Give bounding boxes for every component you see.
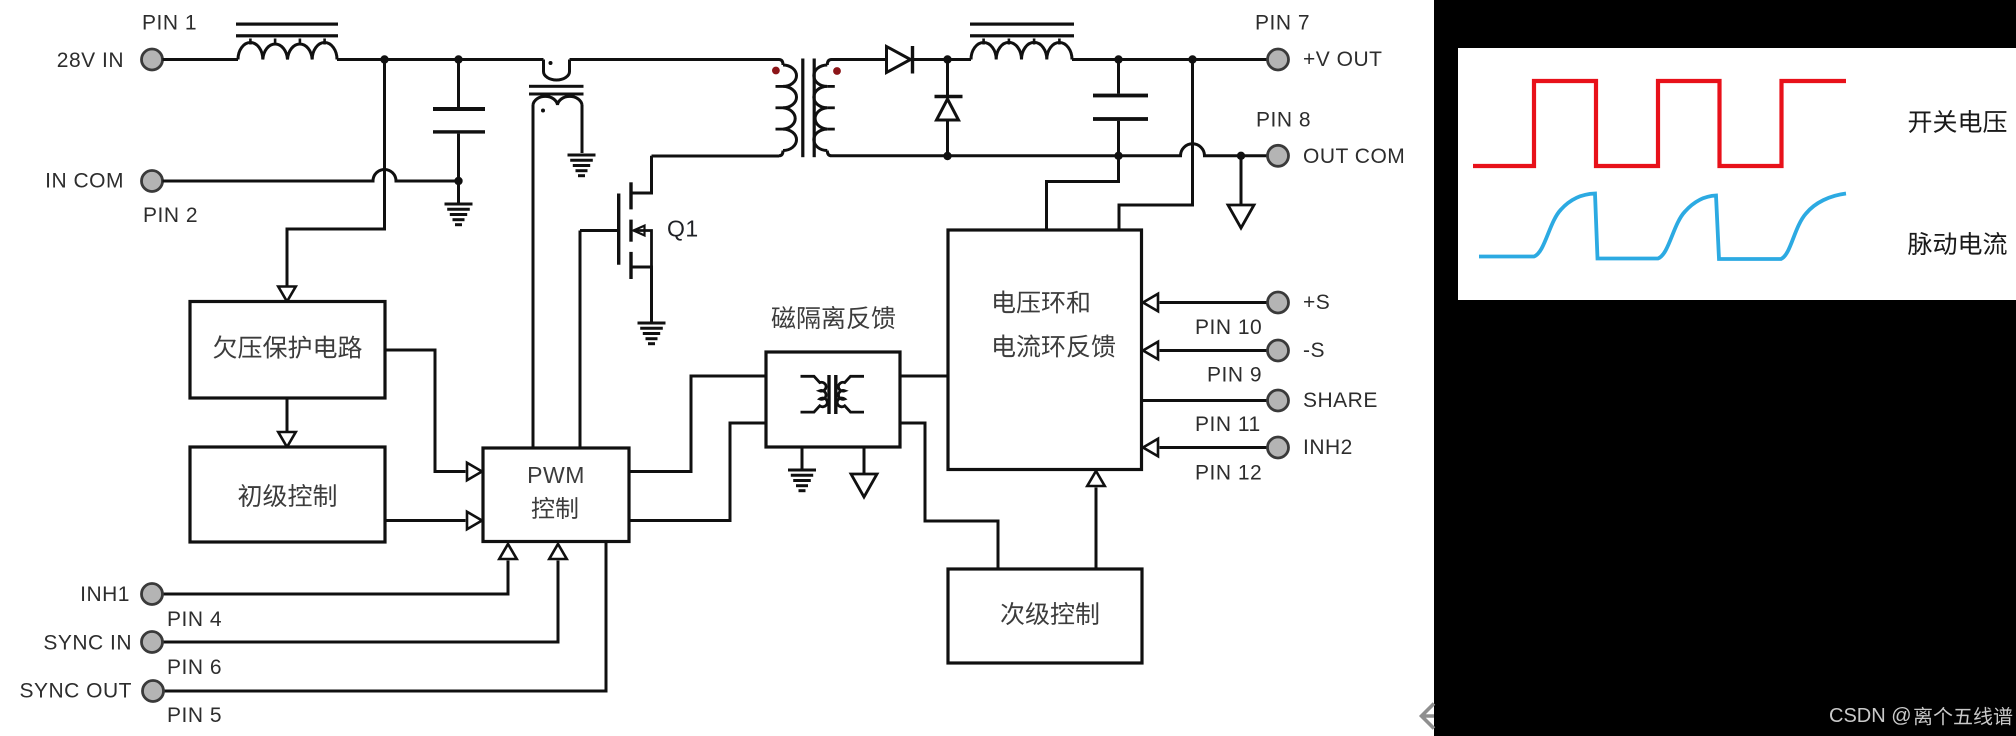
svg-text:PIN 9: PIN 9 — [1207, 364, 1262, 387]
svg-text:+V OUT: +V OUT — [1303, 48, 1382, 71]
text secondary control — [1001, 602, 1098, 625]
junction input rail / C1 — [454, 55, 462, 63]
block undervoltage protection — [190, 302, 385, 399]
terminal PIN8 OUT COM — [1268, 145, 1289, 166]
waveform panel white card — [1458, 48, 2016, 300]
wire L1 to CT primary — [337, 58, 544, 61]
block secondary control — [948, 569, 1142, 663]
transformer T1 primary winding — [776, 65, 797, 151]
terminal PIN6 SYNC IN — [142, 632, 163, 653]
svg-text:PIN 11: PIN 11 — [1195, 413, 1261, 436]
wire CT to T1 primary — [570, 58, 780, 61]
wire C1 ground stub — [457, 181, 460, 204]
wire 28V IN to L1 — [163, 58, 239, 61]
wire C2 top lead — [1117, 60, 1120, 94]
wire L2 to +V OUT — [1072, 58, 1268, 61]
T1 secondary bottom corner — [827, 151, 831, 156]
Q1 body arrow — [634, 226, 645, 236]
polarity dot CT primary — [549, 61, 553, 65]
wire Q1 drain to T1 primary bottom — [652, 155, 780, 158]
junction D1 cathode / L2 / D2 — [943, 55, 951, 63]
block magnetic isolation feedback — [766, 352, 900, 447]
text primary control — [238, 484, 335, 507]
wire PWM gate drive — [579, 231, 582, 449]
inductor L2 output choke — [971, 39, 1072, 60]
junction output rail / C2 — [1114, 55, 1122, 63]
text PWM control — [532, 497, 578, 519]
svg-text:PIN 6: PIN 6 — [167, 656, 222, 679]
polarity dot T1 secondary — [833, 67, 841, 75]
terminal PIN1 28V IN — [142, 49, 163, 70]
text pulsating current — [1908, 232, 2007, 255]
wire Q1 source lead — [632, 267, 652, 323]
transformer T1 core bars — [801, 59, 816, 158]
inductor L2 core bars — [970, 23, 1074, 38]
svg-text:28V IN: 28V IN — [57, 49, 124, 72]
transformer CT core bars — [529, 85, 584, 96]
back arrow icon — [1422, 704, 1435, 729]
capacitor C2 output filter — [1093, 94, 1148, 121]
ground earth CT secondary — [568, 155, 596, 176]
text magnetic isolation feedback label — [772, 306, 895, 329]
wire INH1 — [163, 561, 508, 595]
arrowhead into primary control box — [278, 432, 296, 447]
svg-text:PWM: PWM — [527, 462, 585, 488]
arrowhead UV into PWM — [467, 463, 482, 481]
polarity dot CT secondary — [541, 109, 545, 113]
inductor L1 core bars — [236, 23, 338, 38]
svg-text:PIN 12: PIN 12 — [1195, 462, 1262, 485]
svg-text:PIN 4: PIN 4 — [167, 608, 222, 631]
svg-text:PIN 10: PIN 10 — [1195, 316, 1262, 339]
text switching voltage — [1909, 110, 2007, 133]
ground earth input filter — [445, 204, 473, 225]
wire SYNC IN — [163, 561, 558, 643]
T1 primary bottom corner — [779, 151, 783, 156]
wire C1 bottom lead — [457, 134, 460, 181]
transformer CT primary loop — [544, 60, 570, 81]
block primary control — [190, 447, 385, 542]
terminal PIN11 SHARE — [1268, 390, 1289, 411]
svg-text:PIN 1: PIN 1 — [142, 12, 197, 35]
T1 primary top corner — [779, 60, 783, 66]
arrowhead into UV protection box — [278, 287, 296, 302]
waveform pulsating current (blue curve) — [1479, 194, 1846, 260]
wire UV sense down to protection box — [287, 60, 385, 289]
watermark CSDN — [1829, 705, 2012, 727]
capacitor C1 input filter — [433, 107, 485, 134]
junction output rail / V sense — [1188, 55, 1196, 63]
wire SHARE — [1142, 399, 1268, 402]
waveform switching voltage (red square wave) — [1473, 81, 1846, 166]
transformer T1 secondary winding — [814, 65, 835, 151]
svg-text:IN COM: IN COM — [45, 170, 124, 193]
text current loop line2 — [994, 335, 1115, 358]
junction IN COM / C1 — [454, 177, 462, 185]
wire +S — [1160, 301, 1268, 304]
arrowhead +S into loop box — [1143, 294, 1158, 312]
arrowhead INH1 into PWM — [499, 544, 517, 559]
text voltage loop line1 — [994, 291, 1088, 314]
polarity dot T1 primary — [772, 67, 780, 75]
wire primary control to PWM — [385, 519, 466, 522]
block voltage and current loop feedback — [948, 230, 1142, 470]
svg-text:PIN 7: PIN 7 — [1255, 12, 1310, 35]
wire secondary return rail with hop — [832, 144, 1268, 156]
transformer CT secondary winding — [533, 96, 582, 105]
junction input rail / UV sense — [380, 55, 388, 63]
wire C2 bottom lead — [1117, 121, 1120, 156]
svg-text:+S: +S — [1303, 291, 1330, 314]
inductor L1 input choke — [238, 39, 337, 60]
wire Q1 body tie — [634, 231, 652, 268]
wire D1 to L2 — [948, 58, 972, 61]
junction return rail / output ground — [1237, 152, 1245, 160]
svg-text:OUT COM: OUT COM — [1303, 145, 1405, 168]
svg-text:INH2: INH2 — [1303, 436, 1353, 459]
wire secondary control to loop box — [1095, 488, 1098, 570]
wire -S — [1160, 349, 1268, 352]
text undervoltage protection — [214, 335, 362, 358]
wire D2 anode lead — [946, 120, 949, 156]
terminal PIN2 IN COM — [142, 171, 163, 192]
terminal PIN12 INH2 — [1268, 437, 1289, 458]
wire +V sense to feedback box — [1119, 60, 1193, 231]
svg-text:INH1: INH1 — [80, 583, 130, 606]
terminal PIN5 SYNC OUT — [143, 681, 164, 702]
svg-text:PIN 2: PIN 2 — [143, 204, 198, 227]
junction D2 anode / return rail — [943, 152, 951, 160]
wire feedback triangle ground stub — [863, 447, 866, 474]
terminal PIN10 +S — [1268, 292, 1289, 313]
wire SYNC OUT — [164, 542, 606, 692]
arrowhead into loop box bottom — [1087, 471, 1105, 486]
svg-text:PIN 8: PIN 8 — [1256, 109, 1311, 132]
wire IN COM with hop over UV sense — [163, 170, 459, 182]
wire PWM to isolation feedback upper — [629, 376, 766, 472]
svg-text:-S: -S — [1303, 339, 1325, 362]
block PWM control — [483, 448, 629, 542]
arrowhead -S into loop box — [1143, 342, 1158, 360]
wire feedback to secondary control — [900, 423, 998, 569]
wire feedback ground stub — [801, 447, 804, 470]
wire PWM to isolation feedback lower — [629, 423, 766, 521]
wire C1 top lead — [457, 60, 460, 108]
svg-text:PIN 5: PIN 5 — [167, 704, 222, 727]
wire INH2 — [1160, 446, 1268, 449]
svg-text:Q1: Q1 — [667, 216, 699, 242]
wire D2 cathode lead — [946, 60, 949, 96]
transistor Q1 MOSFET — [619, 182, 631, 279]
arrowhead INH2 into loop box — [1143, 439, 1158, 457]
wire CT secondary to ground — [581, 105, 584, 153]
wire T1 secondary to D1 — [832, 58, 887, 61]
terminal PIN4 INH1 — [142, 584, 163, 605]
arrowhead SYNC IN into PWM — [549, 544, 567, 559]
wire UV to primary control — [286, 398, 289, 434]
waveform panel black background — [1434, 0, 2016, 736]
isolation transformer icon — [801, 375, 865, 414]
junction return rail / C2 — [1114, 152, 1122, 160]
ground earth Q1 source — [638, 323, 666, 344]
svg-text:SYNC IN: SYNC IN — [43, 632, 132, 655]
wire output ground stub — [1240, 156, 1243, 205]
wire UV protection to PWM — [385, 350, 466, 472]
T1 secondary top corner — [827, 60, 831, 66]
svg-text:SHARE: SHARE — [1303, 389, 1378, 412]
wire D1 to junction — [913, 58, 948, 61]
terminal PIN9 -S — [1268, 340, 1289, 361]
ground triangle isolation feedback — [851, 474, 877, 497]
wire return sense to feedback box — [1047, 156, 1119, 230]
diode D1 rectifier — [887, 46, 913, 74]
wire Q1 drain lead — [632, 156, 652, 193]
ground earth isolation feedback — [788, 470, 816, 491]
ground triangle OUT COM — [1228, 205, 1254, 228]
wire Q1 gate lead — [580, 229, 617, 232]
svg-text:SYNC OUT: SYNC OUT — [19, 680, 132, 703]
arrowhead primary control into PWM — [467, 512, 482, 530]
svg-text:CSDN @: CSDN @ — [1829, 705, 1912, 727]
wire feedback to loop box — [900, 375, 948, 378]
wire CT secondary to PWM — [532, 105, 535, 448]
terminal PIN7 +V OUT — [1268, 49, 1289, 70]
diode D2 freewheeling — [935, 97, 963, 121]
